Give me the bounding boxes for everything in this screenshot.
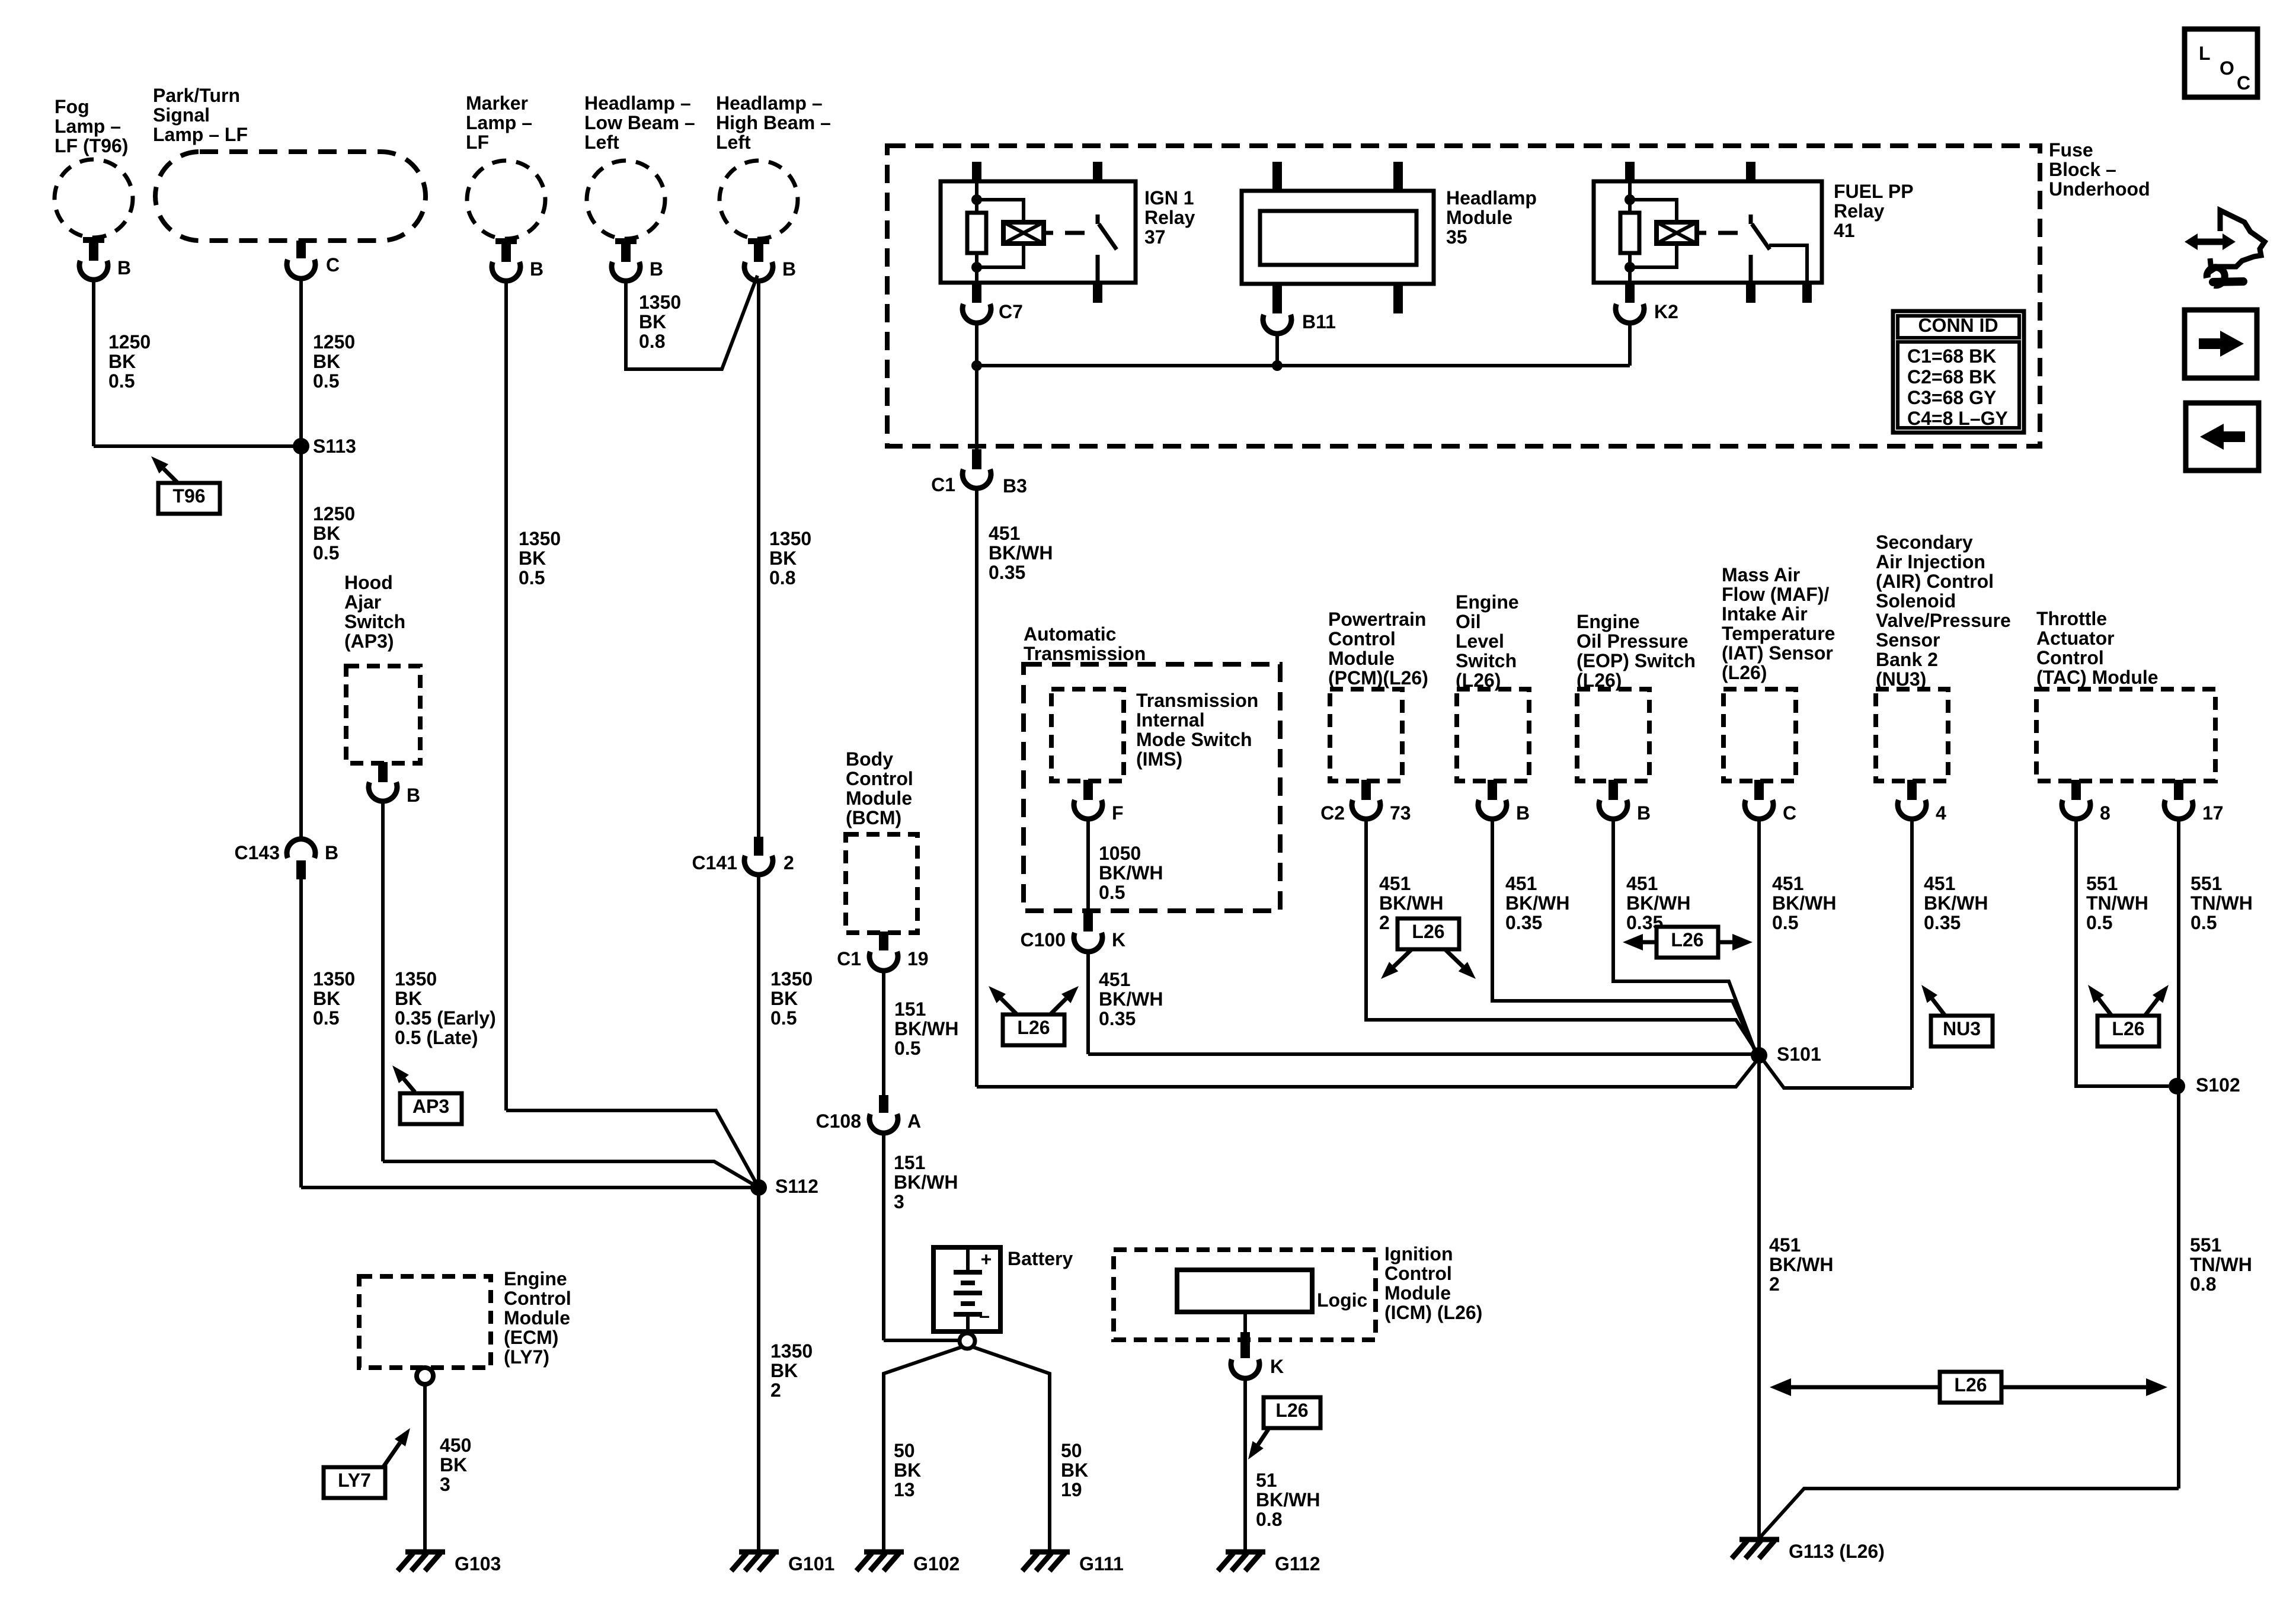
svg-text:K2: K2 — [1654, 301, 1678, 322]
svg-text:Module: Module — [1384, 1282, 1451, 1304]
svg-text:Body: Body — [846, 748, 893, 770]
svg-text:451: 451 — [1924, 873, 1955, 894]
svg-text:1350: 1350 — [639, 292, 681, 313]
svg-text:LF: LF — [466, 132, 489, 153]
svg-text:Valve/Pressure: Valve/Pressure — [1876, 610, 2011, 631]
svg-text:0.35 (Early): 0.35 (Early) — [395, 1007, 496, 1029]
svg-text:C: C — [326, 254, 340, 276]
svg-text:BK/WH: BK/WH — [1256, 1489, 1320, 1510]
svg-text:TN/WH: TN/WH — [2191, 892, 2253, 914]
svg-text:Ajar: Ajar — [344, 591, 381, 613]
svg-text:Fog: Fog — [55, 96, 89, 117]
svg-text:(AP3): (AP3) — [344, 630, 394, 652]
svg-text:C2=68 BK: C2=68 BK — [1907, 366, 1996, 388]
svg-text:Switch: Switch — [1456, 650, 1517, 671]
svg-text:Module: Module — [1328, 648, 1395, 669]
svg-text:Actuator: Actuator — [2036, 628, 2115, 649]
svg-text:Hood: Hood — [344, 572, 393, 593]
svg-text:Module: Module — [1446, 207, 1512, 228]
svg-text:BK: BK — [894, 1459, 921, 1481]
svg-text:Intake Air: Intake Air — [1722, 603, 1808, 625]
svg-text:Control: Control — [1328, 628, 1396, 649]
svg-text:0.35: 0.35 — [1505, 912, 1542, 933]
svg-text:B: B — [407, 785, 420, 806]
svg-text:Transmission: Transmission — [1024, 643, 1146, 664]
svg-text:G111: G111 — [1079, 1553, 1124, 1574]
svg-text:Control: Control — [504, 1288, 571, 1309]
svg-text:Switch: Switch — [344, 611, 405, 632]
svg-text:BK/WH: BK/WH — [894, 1018, 958, 1039]
svg-text:BK: BK — [770, 988, 798, 1009]
svg-text:19: 19 — [907, 948, 929, 969]
svg-text:Lamp – LF: Lamp – LF — [153, 124, 248, 145]
svg-text:0.5: 0.5 — [313, 370, 339, 392]
svg-text:451: 451 — [1099, 969, 1130, 990]
svg-text:(AIR) Control: (AIR) Control — [1876, 571, 1994, 592]
svg-text:BK/WH: BK/WH — [1099, 988, 1163, 1010]
svg-text:TN/WH: TN/WH — [2190, 1254, 2252, 1275]
svg-text:L26: L26 — [1954, 1374, 1987, 1395]
svg-text:Logic: Logic — [1317, 1289, 1367, 1311]
svg-text:BK: BK — [770, 1360, 798, 1381]
svg-text:(IMS): (IMS) — [1136, 748, 1182, 770]
svg-text:Underhood: Underhood — [2049, 178, 2150, 200]
svg-text:Lamp –: Lamp – — [55, 116, 121, 137]
svg-text:Control: Control — [2036, 647, 2104, 668]
svg-text:Flow (MAF)/: Flow (MAF)/ — [1722, 584, 1829, 605]
svg-text:T96: T96 — [172, 485, 205, 507]
svg-text:1250: 1250 — [313, 503, 355, 524]
svg-text:Battery: Battery — [1008, 1248, 1073, 1269]
svg-text:AP3: AP3 — [412, 1096, 449, 1117]
svg-text:BK: BK — [769, 548, 797, 569]
svg-text:1350: 1350 — [395, 968, 437, 990]
svg-text:35: 35 — [1446, 226, 1467, 248]
svg-text:50: 50 — [1061, 1440, 1082, 1461]
svg-text:L26: L26 — [1671, 929, 1703, 950]
svg-text:13: 13 — [894, 1479, 915, 1500]
svg-text:L26: L26 — [2112, 1018, 2144, 1039]
svg-text:451: 451 — [1505, 873, 1537, 894]
svg-text:Lamp –: Lamp – — [466, 112, 532, 133]
svg-text:0.5: 0.5 — [519, 567, 545, 588]
svg-text:Signal: Signal — [153, 104, 210, 126]
svg-text:0.35: 0.35 — [1924, 912, 1961, 933]
svg-text:Solenoid: Solenoid — [1876, 590, 1956, 612]
svg-text:L26: L26 — [1017, 1017, 1050, 1038]
svg-text:Engine: Engine — [1576, 611, 1640, 632]
svg-text:S102: S102 — [2196, 1074, 2240, 1096]
svg-text:0.5: 0.5 — [894, 1038, 920, 1059]
svg-text:1350: 1350 — [770, 1340, 813, 1362]
svg-text:B: B — [650, 258, 663, 280]
svg-text:(IAT) Sensor: (IAT) Sensor — [1722, 642, 1833, 664]
svg-text:1350: 1350 — [519, 528, 561, 549]
svg-text:S112: S112 — [775, 1176, 818, 1197]
svg-text:41: 41 — [1834, 220, 1855, 241]
svg-text:451: 451 — [1769, 1234, 1801, 1256]
svg-text:451: 451 — [1626, 873, 1658, 894]
svg-text:BK/WH: BK/WH — [989, 542, 1053, 564]
svg-text:C1: C1 — [837, 948, 861, 969]
svg-text:Bank 2: Bank 2 — [1876, 649, 1938, 670]
svg-text:0.35: 0.35 — [1099, 1008, 1136, 1029]
svg-text:C3=68 GY: C3=68 GY — [1907, 387, 1996, 408]
svg-text:Control: Control — [846, 768, 913, 789]
svg-text:Oil Pressure: Oil Pressure — [1576, 630, 1689, 652]
svg-text:Left: Left — [584, 132, 619, 153]
svg-text:2: 2 — [1769, 1273, 1780, 1295]
svg-text:Temperature: Temperature — [1722, 623, 1835, 644]
svg-text:19: 19 — [1061, 1479, 1082, 1500]
svg-text:BK/WH: BK/WH — [894, 1172, 958, 1193]
svg-text:(PCM)(L26): (PCM)(L26) — [1328, 667, 1428, 689]
svg-text:0.8: 0.8 — [2190, 1273, 2216, 1295]
svg-text:37: 37 — [1144, 226, 1166, 248]
svg-text:2: 2 — [784, 852, 794, 873]
svg-text:0.5 (Late): 0.5 (Late) — [395, 1027, 478, 1048]
svg-text:B: B — [782, 258, 796, 280]
svg-text:1350: 1350 — [770, 968, 813, 990]
svg-text:BK: BK — [395, 988, 422, 1009]
svg-text:0.5: 0.5 — [1099, 882, 1125, 903]
svg-text:G102: G102 — [913, 1553, 960, 1574]
svg-text:BK: BK — [519, 548, 546, 569]
svg-text:Mass Air: Mass Air — [1722, 564, 1800, 585]
svg-text:O: O — [2220, 57, 2234, 79]
svg-text:BK/WH: BK/WH — [1924, 892, 1988, 914]
svg-text:NU3: NU3 — [1943, 1018, 1981, 1039]
svg-text:451: 451 — [989, 523, 1020, 544]
svg-text:BK: BK — [639, 311, 666, 332]
svg-text:450: 450 — [440, 1435, 471, 1456]
svg-text:C108: C108 — [816, 1110, 862, 1132]
svg-text:BK: BK — [313, 351, 340, 372]
svg-text:Mode Switch: Mode Switch — [1136, 729, 1252, 750]
svg-text:4: 4 — [1936, 802, 1946, 824]
svg-text:C1: C1 — [931, 474, 955, 495]
svg-text:2: 2 — [1379, 912, 1390, 933]
svg-text:1250: 1250 — [108, 331, 151, 353]
svg-text:73: 73 — [1390, 802, 1411, 824]
svg-text:B: B — [1637, 802, 1651, 824]
svg-text:Module: Module — [504, 1307, 570, 1329]
svg-text:Automatic: Automatic — [1024, 623, 1116, 645]
svg-text:L: L — [2199, 43, 2211, 64]
svg-text:(ICM) (L26): (ICM) (L26) — [1384, 1302, 1482, 1323]
svg-text:0.5: 0.5 — [2191, 912, 2217, 933]
svg-text:(LY7): (LY7) — [504, 1346, 549, 1368]
svg-text:S113: S113 — [313, 436, 356, 457]
svg-text:0.5: 0.5 — [108, 370, 135, 392]
svg-text:K: K — [1270, 1356, 1284, 1377]
svg-text:1350: 1350 — [769, 528, 811, 549]
svg-text:B: B — [117, 257, 131, 279]
svg-text:B: B — [325, 842, 338, 863]
svg-text:50: 50 — [894, 1440, 915, 1461]
svg-text:BK/WH: BK/WH — [1379, 892, 1443, 914]
svg-text:BK: BK — [1061, 1459, 1088, 1481]
svg-text:3: 3 — [440, 1474, 450, 1495]
svg-text:(L26): (L26) — [1722, 662, 1767, 683]
svg-text:BK/WH: BK/WH — [1769, 1254, 1833, 1275]
svg-text:151: 151 — [894, 998, 926, 1020]
svg-text:C4=8 L–GY: C4=8 L–GY — [1907, 408, 2008, 429]
svg-text:BK: BK — [313, 523, 340, 544]
svg-text:L26: L26 — [1412, 921, 1444, 942]
svg-text:B11: B11 — [1302, 311, 1336, 332]
svg-text:Control: Control — [1384, 1263, 1452, 1284]
svg-text:IGN 1: IGN 1 — [1144, 187, 1194, 209]
svg-text:Module: Module — [846, 788, 912, 809]
svg-text:BK: BK — [313, 988, 340, 1009]
svg-text:BK/WH: BK/WH — [1626, 892, 1690, 914]
svg-text:Internal: Internal — [1136, 709, 1205, 731]
svg-text:G112: G112 — [1275, 1553, 1320, 1574]
svg-text:B3: B3 — [1003, 475, 1027, 497]
svg-text:(TAC) Module: (TAC) Module — [2036, 667, 2159, 688]
svg-text:B: B — [530, 258, 543, 280]
svg-text:C: C — [2237, 72, 2250, 94]
svg-text:17: 17 — [2202, 802, 2224, 824]
svg-text:L26: L26 — [1275, 1400, 1308, 1421]
svg-text:8: 8 — [2100, 802, 2110, 824]
svg-text:F: F — [1112, 802, 1124, 824]
svg-text:1050: 1050 — [1099, 843, 1141, 864]
svg-text:High Beam –: High Beam – — [716, 112, 831, 133]
svg-text:Powertrain: Powertrain — [1328, 609, 1426, 630]
svg-text:0.5: 0.5 — [313, 1007, 339, 1029]
svg-text:Ignition: Ignition — [1384, 1243, 1453, 1265]
svg-text:B: B — [1516, 802, 1530, 824]
svg-text:551: 551 — [2191, 873, 2222, 894]
svg-text:(EOP) Switch: (EOP) Switch — [1576, 650, 1696, 671]
svg-text:151: 151 — [894, 1152, 925, 1173]
svg-text:C141: C141 — [692, 852, 738, 873]
svg-text:0.5: 0.5 — [770, 1007, 797, 1029]
svg-text:1350: 1350 — [313, 968, 355, 990]
svg-text:A: A — [907, 1110, 921, 1132]
svg-text:Secondary: Secondary — [1876, 532, 1973, 553]
svg-text:C2: C2 — [1320, 802, 1345, 824]
svg-text:S101: S101 — [1777, 1044, 1821, 1065]
svg-text:(ECM): (ECM) — [504, 1327, 558, 1348]
svg-text:+: + — [981, 1249, 992, 1270]
svg-text:–: – — [979, 1305, 990, 1326]
svg-text:2: 2 — [770, 1379, 781, 1401]
svg-text:0.8: 0.8 — [1256, 1509, 1282, 1530]
svg-text:G101: G101 — [788, 1553, 834, 1574]
svg-text:BK: BK — [108, 351, 136, 372]
svg-text:Air Injection: Air Injection — [1876, 551, 1985, 572]
svg-text:Fuse: Fuse — [2049, 139, 2093, 161]
svg-text:1250: 1250 — [313, 331, 355, 353]
svg-text:Transmission: Transmission — [1136, 690, 1258, 711]
svg-text:C143: C143 — [235, 842, 280, 863]
svg-text:Headlamp: Headlamp — [1446, 187, 1537, 209]
svg-text:0.8: 0.8 — [639, 331, 665, 352]
svg-text:Low Beam –: Low Beam – — [584, 112, 695, 133]
svg-text:Throttle: Throttle — [2036, 608, 2107, 629]
svg-text:Relay: Relay — [1834, 200, 1885, 222]
svg-text:FUEL PP: FUEL PP — [1834, 181, 1914, 202]
svg-text:C7: C7 — [999, 301, 1023, 322]
svg-text:C1=68 BK: C1=68 BK — [1907, 345, 1996, 367]
svg-text:Relay: Relay — [1144, 207, 1195, 228]
svg-text:0.5: 0.5 — [2086, 912, 2112, 933]
svg-text:(BCM): (BCM) — [846, 807, 901, 828]
svg-text:(NU3): (NU3) — [1876, 668, 1926, 690]
svg-text:Left: Left — [716, 132, 751, 153]
svg-text:0.35: 0.35 — [989, 562, 1025, 583]
svg-text:C: C — [1783, 802, 1796, 824]
svg-text:Headlamp –: Headlamp – — [716, 92, 823, 114]
svg-text:Sensor: Sensor — [1876, 629, 1940, 651]
svg-text:Engine: Engine — [504, 1268, 567, 1289]
svg-text:451: 451 — [1379, 873, 1411, 894]
svg-text:C100: C100 — [1021, 929, 1066, 950]
svg-text:Level: Level — [1456, 630, 1504, 652]
svg-text:G113 (L26): G113 (L26) — [1789, 1541, 1885, 1562]
svg-text:Oil: Oil — [1456, 611, 1481, 632]
svg-text:K: K — [1112, 929, 1125, 950]
svg-text:551: 551 — [2190, 1234, 2221, 1256]
svg-text:451: 451 — [1772, 873, 1803, 894]
svg-text:551: 551 — [2086, 873, 2118, 894]
svg-text:LF (T96): LF (T96) — [55, 135, 128, 156]
svg-text:3: 3 — [894, 1191, 904, 1212]
svg-text:0.5: 0.5 — [1772, 912, 1798, 933]
svg-text:Park/Turn: Park/Turn — [153, 85, 240, 106]
svg-text:CONN ID: CONN ID — [1918, 315, 1998, 336]
svg-text:0.5: 0.5 — [313, 542, 339, 564]
svg-text:G103: G103 — [455, 1553, 501, 1574]
svg-text:Marker: Marker — [466, 92, 528, 114]
svg-text:BK/WH: BK/WH — [1099, 862, 1163, 884]
svg-text:51: 51 — [1256, 1470, 1277, 1491]
svg-text:Headlamp –: Headlamp – — [584, 92, 691, 114]
svg-text:0.8: 0.8 — [769, 567, 795, 588]
svg-text:Engine: Engine — [1456, 591, 1519, 613]
svg-text:Block –: Block – — [2049, 159, 2116, 180]
svg-text:LY7: LY7 — [338, 1470, 371, 1491]
svg-text:BK: BK — [440, 1454, 467, 1475]
svg-text:TN/WH: TN/WH — [2086, 892, 2148, 914]
svg-text:BK/WH: BK/WH — [1772, 892, 1836, 914]
svg-text:BK/WH: BK/WH — [1505, 892, 1569, 914]
